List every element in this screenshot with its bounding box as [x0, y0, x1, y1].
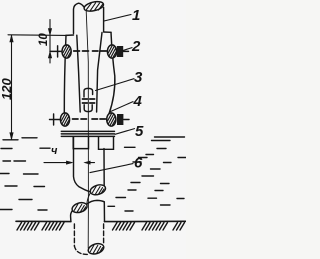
- top bolt 2: right thread dashes: [93, 50, 107, 52]
- pile below ground: bottom dashed break curve: [74, 246, 88, 254]
- right shoe: [99, 137, 114, 149]
- pile below ground: right dashed wall: [103, 224, 105, 244]
- pile 6: break S-curve: [87, 194, 90, 204]
- dim 4: inner arrow tail: [90, 162, 95, 164]
- joint 3: upper dashes: [83, 98, 95, 100]
- joint 3: upper staple: [84, 88, 93, 97]
- ground hatch group 3: [113, 223, 135, 231]
- tube inner wall left: [77, 35, 80, 112]
- clamp base plate (3 lines): [61, 131, 114, 136]
- top bolt 2: left washer tick: [57, 46, 59, 57]
- svg-text:ч: ч: [51, 145, 58, 157]
- water dash row b: [3, 160, 26, 162]
- ground hatch group 5: [173, 223, 185, 231]
- water dash row c right: [142, 175, 154, 177]
- right strap: [109, 32, 115, 114]
- bottom bolt 5: left washer tick: [53, 114, 55, 125]
- pile 6: right wall above break: [103, 149, 105, 188]
- ground line right segment: [105, 220, 187, 222]
- dim 120: bottom arrow: [10, 133, 13, 140]
- water dash row d right: [131, 183, 169, 184]
- top bolt 2: right head (hatched ball): [107, 45, 116, 58]
- svg-text:1: 1: [132, 7, 140, 24]
- water dash row c: [0, 173, 38, 176]
- axis line of pile: [86, 11, 88, 248]
- pile 6: lower stub left wall: [71, 211, 73, 222]
- svg-text:3: 3: [134, 69, 143, 86]
- top bolt 2: left head (hatched ball): [62, 45, 71, 58]
- bottom bolt 5: left thread dashes: [73, 118, 87, 120]
- svg-text:2: 2: [131, 38, 141, 55]
- ground line left segment: [16, 220, 71, 222]
- dim 4: inner arrowhead (points left): [85, 161, 91, 164]
- dim 4: arrow line: [44, 162, 70, 164]
- ground hatch group 2: [42, 223, 64, 231]
- svg-text:10: 10: [38, 33, 50, 46]
- leader 1: [104, 15, 131, 22]
- leader 6: [90, 164, 133, 173]
- top bolt 2: right nut block: [117, 46, 123, 57]
- dim 10: bottom arrow (points up): [48, 52, 51, 58]
- water dash row f right: [108, 205, 115, 207]
- left strap: [64, 35, 66, 114]
- water dash row d: [5, 185, 45, 188]
- collar step right: [104, 31, 111, 33]
- pile below ground: left dashed wall: [73, 224, 75, 246]
- water dash row e right extras: [125, 205, 170, 211]
- dim 120: extension line top: [8, 34, 66, 37]
- leader 4: [110, 102, 134, 112]
- follower tube 1: left wall: [74, 3, 84, 33]
- water dash row f: [0, 209, 47, 212]
- joint 3: lower staple: [84, 105, 92, 112]
- svg-text:4: 4: [133, 93, 143, 110]
- water dash row bc right extras: [133, 162, 171, 169]
- joint 3: lower dashes: [83, 102, 95, 104]
- svg-text:120: 120: [0, 78, 14, 100]
- top bolt 2: right tip: [124, 50, 129, 52]
- leader 3: [96, 79, 135, 91]
- water dash row d right extras: [128, 189, 163, 192]
- bottom bolt 5: right head (hatched ball): [107, 113, 116, 126]
- water dash row b right: [139, 155, 187, 158]
- bottom bolt 5: right nut block: [117, 114, 123, 125]
- pile 6: left wall above break: [74, 137, 91, 192]
- follower tube 1: top break hatched ellipse: [83, 0, 104, 13]
- dim 120: top arrow: [10, 35, 13, 42]
- dim 120: dimension line: [11, 35, 13, 139]
- dim 10: dimension line: [49, 20, 51, 64]
- leader 5: [115, 129, 135, 135]
- water dash row e right: [116, 198, 184, 199]
- water surface dashes left: [3, 138, 37, 140]
- dim 10: top arrow (points down): [48, 29, 51, 35]
- water dash row a right: [125, 147, 167, 148]
- follower tube 1: right wall: [103, 8, 105, 32]
- water dash row e: [19, 199, 32, 201]
- pile 6: upper break hatched ellipse: [89, 183, 107, 196]
- leader 2: [123, 48, 133, 51]
- water dash row a: [1, 147, 50, 149]
- tube inner wall right: [97, 33, 102, 113]
- pile bottom break hatched ellipse: [87, 242, 105, 256]
- bottom bolt 5: right thread dashes: [92, 118, 106, 120]
- bottom bolt 5: left tip line: [50, 119, 61, 121]
- dim 4: arrowhead at pile wall: [66, 161, 72, 164]
- bottom bolt 5: right tip: [124, 119, 129, 121]
- collar step left: [66, 34, 74, 36]
- pile 6: lower break hatched ellipse: [71, 201, 88, 214]
- left shoe: [73, 137, 88, 149]
- water surface dashes right: [152, 137, 185, 141]
- ground hatch group 4: [142, 223, 168, 231]
- svg-text:5: 5: [135, 123, 144, 140]
- svg-text:6: 6: [134, 155, 143, 172]
- top bolt 2: left tip line: [50, 50, 62, 52]
- ground hatch group 1: [17, 223, 39, 231]
- top bolt 2: left thread dashes: [74, 50, 89, 52]
- pile 6: lower stub top curve to right wall: [87, 200, 105, 221]
- bottom bolt 5: left head (hatched ball): [60, 113, 69, 126]
